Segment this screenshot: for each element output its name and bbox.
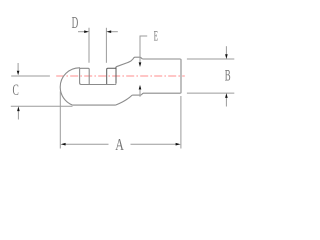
- dim C top arrow: [17, 63, 19, 71]
- svg-text:C: C: [12, 80, 18, 98]
- dim D ext line right: [105, 28, 107, 63]
- ridge bottom plateau: [132, 94, 141, 96]
- right edge: [179, 59, 182, 93]
- dim A right arrowhead: [176, 143, 181, 146]
- svg-text:D: D: [72, 13, 79, 32]
- bottom edge: [73, 104, 116, 106]
- hook outer arc: [60, 68, 80, 105]
- dim A line right: [131, 143, 177, 145]
- dim D ext line left: [88, 28, 90, 63]
- dim A ext line left: [59, 91, 61, 148]
- dim E lower arrow: [139, 85, 142, 90]
- dim A ext line right: [180, 96, 182, 149]
- dim B ext line top: [187, 58, 234, 60]
- dim E lower tail: [139, 89, 141, 96]
- ridge bottom step: [141, 93, 143, 95]
- svg-text:E: E: [154, 28, 158, 45]
- dim D left arrow: [78, 31, 85, 33]
- dim A line left: [65, 143, 109, 145]
- flange F2 (right ear): [107, 67, 116, 84]
- dim B top arrow: [225, 46, 227, 54]
- cone slope: [116, 57, 135, 67]
- dim B ext line bottom: [187, 92, 234, 94]
- top edge: [142, 58, 180, 60]
- svg-text:B: B: [225, 65, 231, 84]
- dim C ext line top: [11, 75, 50, 77]
- plate boundary curve: [116, 95, 133, 105]
- dim C bottom arrow: [17, 111, 19, 120]
- ridge top plateau: [135, 56, 140, 58]
- centerline: [56, 75, 185, 77]
- dim C ext line bottom: [11, 105, 73, 107]
- dim B bottom arrow: [225, 98, 227, 107]
- dim D right arrow: [111, 31, 118, 33]
- svg-text:A: A: [115, 136, 124, 155]
- dim E upper arrow: [139, 62, 142, 67]
- ridge top step: [140, 57, 142, 59]
- bottom right edge: [143, 92, 180, 94]
- shaft baseline: [80, 83, 115, 85]
- flange F1 (left ear): [80, 68, 90, 84]
- dim E leader: [140, 36, 147, 63]
- dim A left arrowhead: [61, 143, 66, 146]
